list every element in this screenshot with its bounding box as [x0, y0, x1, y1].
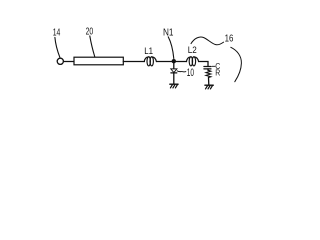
wire resistor to ground: [208, 78, 210, 86]
label 16: [225, 34, 234, 45]
wavy leader for 16: [191, 37, 224, 45]
label 20: [86, 27, 94, 38]
inductor L1: [144, 57, 156, 66]
diode 10 (triangle + bar): [171, 69, 177, 73]
label R: [215, 68, 220, 77]
wire capacitor to resistor: [207, 69, 209, 70]
inductor L2: [186, 57, 198, 66]
svg-text:L1: L1: [144, 46, 153, 57]
label L1: [144, 46, 153, 57]
terminal 14 circle: [57, 58, 63, 64]
wire L1 to L2: [157, 61, 187, 63]
label N1: [163, 28, 174, 39]
capacitor C plates: [204, 67, 211, 69]
squiggle leader for 10: [177, 70, 186, 73]
wire node N1 down to diode: [173, 63, 175, 69]
svg-text:16: 16: [225, 34, 234, 45]
leader line for 20: [90, 36, 95, 57]
brace curve right: [231, 47, 242, 81]
wire terminal to box: [64, 61, 75, 63]
wire diode to ground: [173, 73, 175, 84]
node N1 junction dot: [172, 59, 176, 63]
ground under R: [205, 85, 213, 89]
label 14: [53, 28, 61, 39]
ground under diode: [170, 84, 178, 88]
tick before C: [212, 65, 215, 67]
block 20 (rectangle): [74, 57, 123, 65]
label 10: [187, 67, 194, 79]
wire L2 to corner then down to capacitor: [199, 62, 208, 67]
svg-text:L2: L2: [188, 45, 197, 56]
label L2: [188, 45, 197, 56]
resistor R zigzag: [206, 70, 211, 77]
label C: [215, 62, 220, 71]
svg-text:R: R: [215, 68, 220, 77]
leader line for N1: [168, 37, 174, 59]
wire box to L1: [123, 61, 144, 63]
svg-text:10: 10: [187, 67, 194, 79]
leader line for 14: [55, 37, 60, 57]
svg-text:14: 14: [53, 28, 61, 39]
